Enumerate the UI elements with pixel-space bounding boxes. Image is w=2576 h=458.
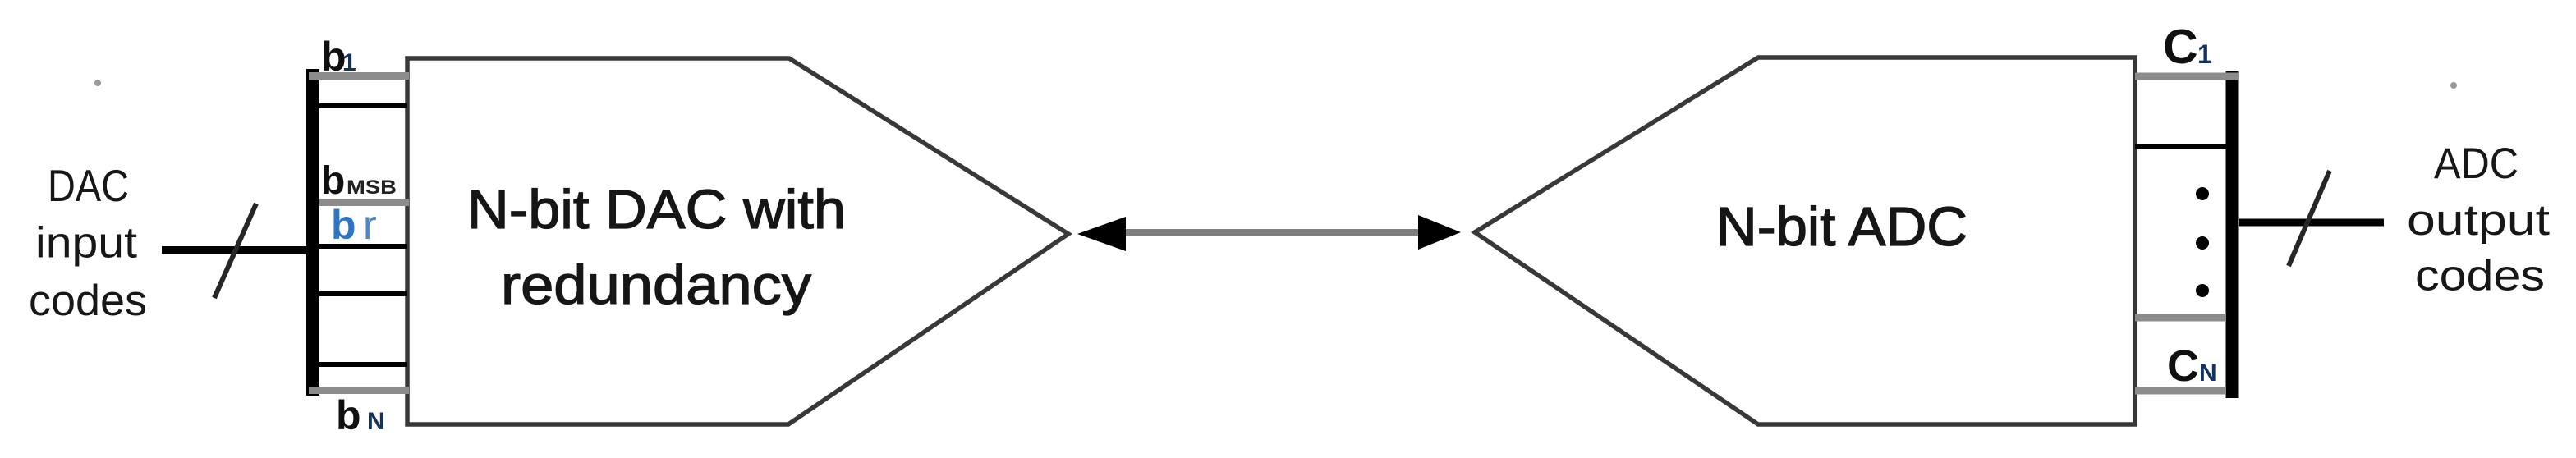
svg-text:b: b: [336, 392, 361, 438]
svg-text:1: 1: [342, 49, 356, 76]
svg-text:input: input: [35, 219, 137, 268]
svg-text:C: C: [2163, 20, 2198, 74]
svg-text:codes: codes: [29, 277, 147, 325]
svg-text:r: r: [363, 202, 377, 248]
svg-text:1: 1: [2197, 39, 2212, 69]
svg-text:N-bit ADC: N-bit ADC: [1716, 196, 1968, 258]
svg-text:codes: codes: [2415, 252, 2545, 300]
svg-text:N: N: [2199, 360, 2217, 387]
svg-text:b: b: [321, 159, 345, 203]
svg-text:N: N: [367, 408, 385, 435]
svg-text:N-bit DAC with: N-bit DAC with: [467, 179, 846, 240]
svg-text:DAC: DAC: [48, 160, 129, 211]
svg-text:ADC: ADC: [2434, 140, 2519, 188]
svg-text:redundancy: redundancy: [501, 254, 812, 316]
svg-text:MSB: MSB: [347, 176, 397, 199]
svg-text:b: b: [331, 202, 356, 248]
svg-text:output: output: [2407, 196, 2550, 245]
svg-text:C: C: [2167, 341, 2199, 391]
